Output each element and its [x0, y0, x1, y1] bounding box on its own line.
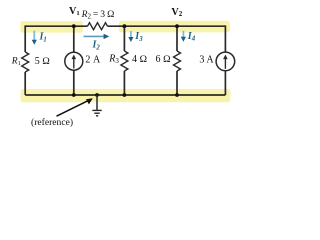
svg-text:4 Ω: 4 Ω: [132, 54, 148, 65]
resistor 6 ohm: [174, 51, 181, 71]
resistor R1 (5 ohm, left rail): [22, 52, 29, 72]
current arrow I1: [32, 31, 37, 45]
node V2 highlight: [119, 21, 230, 33]
resistor R3 (4 ohm): [121, 51, 128, 71]
svg-text:R2 = 3 Ω: R2 = 3 Ω: [81, 9, 115, 21]
reference node highlight: [21, 89, 231, 102]
wire: right rail lower segment: [224, 71, 226, 95]
wire: 2A branch lower segment: [73, 70, 75, 95]
svg-text:V1: V1: [69, 6, 80, 17]
junction dot bottom 2A: [72, 93, 76, 97]
current source 2A circle: [65, 52, 83, 70]
svg-text:(reference): (reference): [31, 117, 73, 128]
junction dot reference/ground: [95, 93, 99, 97]
wire: R3 branch lower segment: [123, 71, 125, 95]
reference pointer arrow: [57, 98, 93, 116]
wire: right rail upper segment: [224, 25, 226, 52]
resistor R2 (zigzag on top wire): [88, 23, 108, 30]
svg-text:3 A: 3 A: [199, 54, 214, 65]
svg-text:V2: V2: [171, 7, 182, 18]
junction dot V2/6-ohm top: [175, 24, 179, 28]
wire: left rail upper segment: [24, 25, 26, 52]
svg-text:I4: I4: [187, 31, 196, 43]
wire: 6-ohm branch upper segment: [176, 26, 178, 51]
wire: top segment of node V2: [108, 25, 226, 27]
svg-text:5 Ω: 5 Ω: [35, 56, 51, 67]
node V1 highlight: [20, 21, 83, 33]
wire: 2A branch upper segment: [73, 26, 75, 52]
svg-text:I2: I2: [92, 40, 101, 52]
junction dot V1/2A top: [72, 24, 76, 28]
svg-text:R1: R1: [11, 55, 21, 67]
svg-text:I1: I1: [39, 32, 47, 44]
junction dot V2/R3 top: [123, 24, 127, 28]
wire: bottom reference-node conductor: [25, 94, 225, 96]
current source 3A arrow: [223, 55, 228, 69]
junction dot bottom 6-ohm: [175, 93, 179, 97]
ground symbol: [92, 95, 101, 116]
current source 2A arrow: [72, 55, 77, 69]
current arrow I3: [128, 31, 133, 42]
svg-text:6 Ω: 6 Ω: [156, 54, 172, 65]
current source 3A circle: [216, 52, 235, 71]
current arrow I4: [181, 31, 186, 42]
svg-text:2 A: 2 A: [85, 55, 101, 66]
wire: left rail lower segment: [24, 72, 26, 95]
svg-text:R3: R3: [108, 53, 119, 65]
svg-text:I3: I3: [134, 31, 143, 43]
wire: 6-ohm branch lower segment: [176, 71, 178, 95]
wire: top segment of node V1: [25, 25, 87, 27]
wire: R3 branch upper segment: [123, 26, 125, 51]
junction dot bottom R3: [123, 93, 127, 97]
current arrow I2: [84, 34, 110, 39]
